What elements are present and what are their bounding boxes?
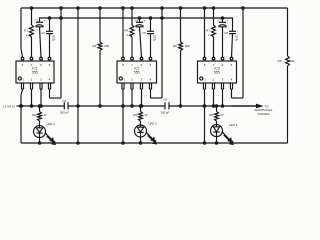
svg-text:4: 4: [231, 78, 233, 82]
svg-text:LED 2: LED 2: [149, 121, 158, 125]
IC2 top pin terminals: [122, 57, 152, 61]
svg-text:C5: C5: [142, 31, 146, 35]
wire right branch with R9: [287, 8, 289, 143]
svg-text:2.2M: 2.2M: [208, 33, 214, 37]
capacitor C7: [217, 17, 228, 57]
capacitor C6: [161, 98, 170, 115]
wire R3 branch: [99, 7, 101, 107]
svg-text:8: 8: [204, 63, 206, 67]
svg-text:2.2M: 2.2M: [26, 33, 32, 37]
wire IC2 pin8 feed: [122, 7, 124, 57]
svg-text:R3: R3: [92, 44, 96, 48]
wire IC1 pins 1-2 to bus: [20, 90, 33, 108]
op-amp U3 IC3 555 timer box: [198, 61, 237, 83]
wire R4 branch: [131, 7, 133, 57]
resistor R3: [92, 42, 109, 51]
wire IC1 pin8 feed: [21, 50, 22, 57]
svg-text:C6: C6: [164, 98, 168, 102]
wire R1 branch: [30, 7, 32, 57]
capacitor C4: [134, 17, 145, 57]
wire IC2 pin3 output: [140, 90, 142, 108]
svg-text:555: 555: [214, 71, 220, 75]
svg-text:8: 8: [22, 63, 24, 67]
op-amp U1 IC1 555 timer box: [16, 61, 54, 83]
svg-text:+: +: [44, 19, 46, 23]
svg-text:220: 220: [104, 44, 109, 48]
capacitor C2: [41, 17, 55, 57]
svg-text:R5: R5: [133, 113, 137, 117]
wire vertical interstage link: [77, 7, 79, 144]
wire left supply wire: [20, 8, 22, 143]
svg-text:3: 3: [40, 78, 42, 82]
wire R7 branch: [212, 7, 214, 57]
svg-text:2: 2: [213, 78, 215, 82]
svg-text:R6: R6: [173, 44, 177, 48]
resistor R7: [206, 25, 215, 37]
wire IC3 pin8 feed: [203, 7, 205, 57]
IC1 bottom pin stubs: [21, 83, 50, 89]
capacitor C8: [224, 18, 238, 57]
svg-text:LED 1: LED 1: [47, 122, 56, 126]
LED 1 indicator with resistor R2: [32, 105, 55, 145]
op-amp U2 IC2 555 timer box: [117, 61, 157, 83]
svg-text:2: 2: [31, 78, 33, 82]
wire IC3 pins 1-2 to bus: [203, 90, 214, 145]
wire IC3 pin3 output: [221, 90, 223, 108]
circuit schematic: three-stage sequential LED flasher: [0, 0, 300, 149]
svg-text:+: +: [144, 19, 146, 23]
svg-text:R8: R8: [209, 113, 213, 117]
svg-text:R9: R9: [278, 59, 282, 63]
resistor R4: [125, 25, 134, 37]
svg-text:2: 2: [131, 78, 133, 82]
capacitor C3: [60, 99, 69, 115]
svg-text:6: 6: [40, 63, 42, 67]
svg-text:47: 47: [145, 113, 149, 117]
wire bottom return rail: [21, 142, 288, 144]
wire IC2 pin4 reset jog: [151, 7, 164, 98]
svg-text:555: 555: [134, 71, 140, 75]
svg-text:1: 1: [204, 78, 206, 82]
svg-text:5: 5: [150, 63, 152, 67]
resistor R1: [24, 25, 33, 37]
svg-text:R2: R2: [32, 113, 36, 117]
svg-text:C1: C1: [34, 19, 38, 23]
LED 3 indicator with resistor R8: [209, 105, 237, 145]
capacitor C5: [142, 17, 156, 57]
wire second rail: [39, 17, 233, 19]
IC1 top pin terminals: [21, 57, 51, 61]
svg-text:5: 5: [49, 63, 51, 67]
svg-text:220: 220: [289, 59, 294, 63]
svg-text:6: 6: [222, 63, 224, 67]
svg-text:6: 6: [141, 63, 143, 67]
svg-text:5: 5: [231, 63, 233, 67]
svg-text:3: 3: [222, 78, 224, 82]
svg-text:R7: R7: [206, 29, 210, 33]
wire IC3 pin4 reset jog: [232, 7, 245, 98]
svg-text:C8: C8: [224, 31, 228, 35]
wire IC2 pins 1-2 to bus: [122, 90, 133, 145]
svg-text:C7: C7: [217, 19, 221, 23]
node battery 1.5 or 3V: [3, 104, 23, 108]
IC3 bottom pin stubs: [203, 83, 232, 89]
svg-text:4: 4: [49, 78, 51, 82]
svg-text:C3: C3: [63, 99, 67, 103]
svg-text:300 µF: 300 µF: [161, 111, 170, 115]
svg-text:1: 1: [23, 78, 25, 82]
svg-text:3: 3: [141, 78, 143, 82]
svg-text:µF: µF: [235, 38, 239, 42]
IC2 bottom pin stubs: [122, 83, 152, 89]
svg-text:C2: C2: [41, 31, 45, 35]
svg-text:LED 3: LED 3: [229, 123, 238, 127]
capacitor C1: [34, 18, 45, 57]
svg-text:47: 47: [221, 113, 225, 117]
svg-text:µF: µF: [153, 38, 157, 42]
svg-text:R4: R4: [125, 29, 129, 33]
wire coupling bus: [21, 105, 262, 107]
svg-text:1: 1: [124, 78, 126, 82]
svg-text:555: 555: [32, 71, 38, 75]
svg-text:47: 47: [44, 113, 48, 117]
wire top supply rail: [21, 7, 288, 9]
svg-text:2.2M: 2.2M: [127, 33, 133, 37]
LED 2 indicator with resistor R5: [133, 105, 157, 144]
svg-text:+: +: [227, 19, 229, 23]
svg-text:C4: C4: [134, 19, 138, 23]
svg-text:1.5 OR 3V: 1.5 OR 3V: [3, 104, 16, 108]
svg-text:7: 7: [131, 63, 133, 67]
svg-text:300 µF: 300 µF: [60, 111, 69, 115]
node to additional stages: [231, 104, 273, 115]
svg-text:R1: R1: [24, 29, 28, 33]
wire IC1 pin4 reset jog: [50, 7, 63, 98]
svg-text:µF: µF: [52, 38, 56, 42]
svg-text:8: 8: [122, 63, 124, 67]
IC3 top pin terminals: [203, 57, 233, 61]
wire IC1 pin3 output: [40, 90, 42, 108]
svg-text:220: 220: [185, 44, 190, 48]
svg-text:4: 4: [150, 78, 152, 82]
resistor R6: [173, 42, 190, 51]
svg-text:STAGES: STAGES: [258, 112, 270, 116]
resistor R9: [278, 56, 295, 66]
wire R6 branch: [179, 7, 181, 107]
